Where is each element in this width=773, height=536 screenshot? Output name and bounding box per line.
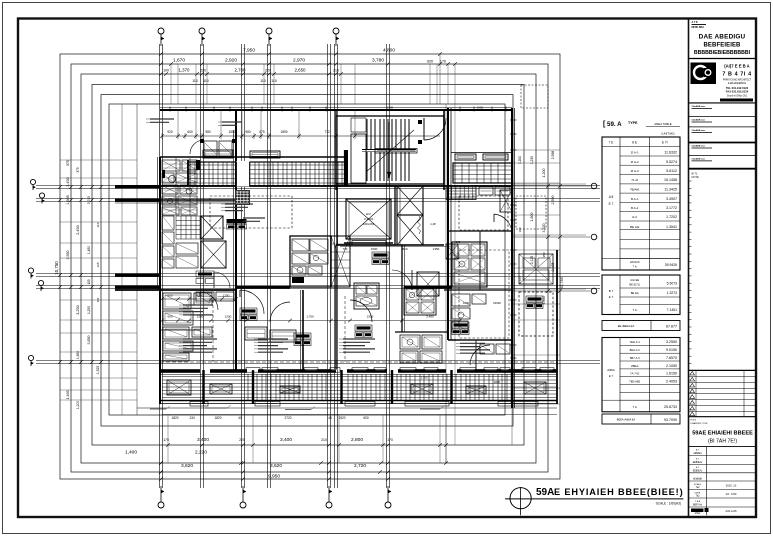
svg-text:100: 100 <box>96 297 100 302</box>
center fixtures <box>245 327 267 340</box>
svg-text:nEaEaBr: nEaEaBr <box>693 478 702 481</box>
center bathroom fixtures <box>292 239 309 251</box>
svg-text:MFPE BBA: MFPE BBA <box>692 26 705 29</box>
svg-text:1,450: 1,450 <box>87 246 91 255</box>
svg-text:2,450: 2,450 <box>76 225 80 235</box>
svg-text:110: 110 <box>192 79 198 83</box>
architect logo box <box>691 63 717 85</box>
svg-text:BE EA: BE EA <box>631 291 639 295</box>
svg-text:980: 980 <box>245 130 251 134</box>
door arc stair entry <box>424 118 446 140</box>
top-right balcony hatch band <box>453 163 512 183</box>
svg-text:772: 772 <box>324 130 330 134</box>
counter rects above bands <box>203 150 233 158</box>
stair small squares <box>418 120 422 124</box>
svg-text:600: 600 <box>187 130 193 134</box>
dashed expansion lines <box>160 361 557 363</box>
UL entry cabinets <box>204 141 217 156</box>
svg-text:1,465: 1,465 <box>66 391 70 400</box>
svg-text:10,750: 10,750 <box>54 261 59 275</box>
svg-text:980: 980 <box>205 130 211 134</box>
svg-text:1,200: 1,200 <box>542 169 546 178</box>
svg-text:5,745: 5,745 <box>87 196 91 204</box>
svg-text:ZI A-2: ZI A-2 <box>631 160 639 164</box>
svg-text:350: 350 <box>542 252 546 257</box>
top wall vertical stubs <box>177 110 179 136</box>
svg-text:5.5073: 5.5073 <box>667 282 677 286</box>
svg-text:A 7 B: A 7 B <box>692 21 698 24</box>
svg-text:1,800: 1,800 <box>530 213 534 222</box>
svg-text:1,250: 1,250 <box>87 306 91 314</box>
svg-text:A31 A-06: A31 A-06 <box>725 509 737 513</box>
svg-text:3.4907: 3.4907 <box>666 197 677 201</box>
center annot clusters <box>183 304 213 306</box>
svg-text:1500: 1500 <box>367 315 374 319</box>
elevator car <box>346 199 391 239</box>
svg-text:2,598: 2,598 <box>551 151 555 160</box>
wall stubs at grid x188 x345 <box>187 160 189 186</box>
svg-text:2720: 2720 <box>284 416 291 420</box>
right strip left wall <box>512 250 514 404</box>
svg-text:8 E: 8 E <box>632 141 637 145</box>
washbasin block <box>354 283 379 309</box>
RU fixtures <box>452 294 470 306</box>
svg-text:7.6570: 7.6570 <box>666 356 677 360</box>
svg-text:1.6150: 1.6150 <box>666 372 677 376</box>
svg-text:59A: 59A <box>536 487 554 498</box>
svg-text:11.6332: 11.6332 <box>664 150 677 154</box>
svg-text:170: 170 <box>163 438 169 442</box>
svg-text:1,670: 1,670 <box>173 58 185 64</box>
svg-text:3.2550: 3.2550 <box>666 340 677 344</box>
svg-text:170: 170 <box>387 438 393 442</box>
svg-text:1,200: 1,200 <box>518 156 522 164</box>
svg-text:210: 210 <box>321 438 327 442</box>
svg-text:8EA A 2: 8EA A 2 <box>630 348 641 352</box>
svg-text:1,230: 1,230 <box>530 156 534 164</box>
window boxes on band top wall <box>246 368 260 373</box>
svg-text:1,200: 1,200 <box>76 401 80 410</box>
svg-text:?B/AIE: ?B/AIE <box>630 188 639 192</box>
svg-text:1,700: 1,700 <box>306 315 314 319</box>
plan left wall <box>159 157 161 404</box>
svg-text:EEBIEAL: EEBIEAL <box>693 469 703 472</box>
svg-text:TEL 031.912.0123: TEL 031.912.0123 <box>726 86 749 90</box>
RU small shaft <box>500 190 512 212</box>
area sum row <box>602 321 680 331</box>
svg-text:5B7 A 3: 5B7 A 3 <box>630 356 640 360</box>
LL kitchen top strip <box>196 292 214 301</box>
svg-text:FAX 031.912.0124: FAX 031.912.0124 <box>726 90 749 94</box>
svg-text:7EH A 1: 7EH A 1 <box>629 340 640 344</box>
svg-text:2.1050: 2.1050 <box>666 364 677 368</box>
svg-text:Seoul-si Office 201: Seoul-si Office 201 <box>727 94 748 97</box>
core-bottom xbox <box>417 272 439 296</box>
svg-text:105: 105 <box>87 279 91 285</box>
UL entry labels <box>196 271 214 277</box>
svg-text:E 2: E 2 <box>632 215 637 219</box>
svg-text:920: 920 <box>427 60 433 64</box>
left wall stubs outside <box>115 185 160 188</box>
title block bottom table <box>689 455 757 457</box>
svg-text:1,605: 1,605 <box>66 195 70 205</box>
svg-text:2,590: 2,590 <box>551 196 555 205</box>
center room annotations <box>225 203 253 205</box>
svg-text:4,800: 4,800 <box>383 48 395 54</box>
svg-text:110: 110 <box>271 79 277 83</box>
svg-text:1,700: 1,700 <box>421 376 428 380</box>
revision table <box>689 375 757 377</box>
svg-text:15.1458: 15.1458 <box>664 178 677 182</box>
svg-text:975: 975 <box>66 160 70 166</box>
full-width interior dim row y317 <box>162 320 460 322</box>
svg-text:8I 71: 8I 71 <box>692 172 698 176</box>
svg-text:16900: 16900 <box>493 301 501 305</box>
svg-text:1820: 1820 <box>171 416 178 420</box>
svg-text:AILI EE: AILI EE <box>630 278 639 282</box>
svg-text:7 A: 7 A <box>633 264 637 268</box>
svg-text:DATE: DATE <box>695 491 701 494</box>
svg-text:3,520: 3,520 <box>542 224 546 233</box>
right unit bathroom <box>452 242 487 287</box>
RU door arc <box>494 214 512 235</box>
svg-text:B 7: B 7 <box>609 289 614 293</box>
svg-text:3,550: 3,550 <box>66 251 70 260</box>
svg-text:1200x2300: 1200x2300 <box>363 224 375 226</box>
svg-text:600: 600 <box>167 294 172 298</box>
svg-text:3,400: 3,400 <box>197 437 209 443</box>
dimension frame rectangles <box>60 54 560 479</box>
center labelbox <box>240 308 257 314</box>
hall door arcs <box>392 270 412 290</box>
svg-text:SCALE : 1/60(A3): SCALE : 1/60(A3) <box>656 502 681 506</box>
svg-text:EE+BEEA EA: EE+BEEA EA <box>618 324 635 328</box>
svg-text:2,920: 2,920 <box>225 58 237 64</box>
interior horiz walls <box>160 156 345 158</box>
svg-text:2,220: 2,220 <box>195 450 207 456</box>
LL kitchen fixtures <box>163 293 191 309</box>
RU dashed room <box>459 196 508 230</box>
svg-text:40: 40 <box>238 416 242 420</box>
center dividing wall x303 <box>302 290 304 370</box>
svg-text:CAaAEB ana: CAaAEB ana <box>692 158 706 161</box>
svg-text:134: 134 <box>189 416 195 420</box>
svg-text:3,620: 3,620 <box>181 463 193 469</box>
svg-text:920: 920 <box>167 130 173 134</box>
svg-text:BBBBBIEBIEBBBBBBI: BBBBBIEBIEBBBBBBI <box>694 50 751 56</box>
supply area row <box>602 414 680 424</box>
svg-text:EEBIEAL: EEBIEAL <box>693 461 703 464</box>
svg-text:2BEA: 2BEA <box>631 364 638 368</box>
UL black label boxes <box>227 219 247 224</box>
dimension tick slashes <box>159 52 163 56</box>
svg-text:1,850: 1,850 <box>76 351 80 360</box>
bottom grid markers <box>160 486 162 502</box>
center bathroom block walls <box>290 236 331 287</box>
svg-text:E B B: E B B <box>691 420 697 422</box>
svg-text:B A-2: B A-2 <box>631 206 639 210</box>
top grid markers <box>158 28 164 34</box>
core-bottom bathroom fixtures <box>400 335 420 349</box>
svg-text:25.6733: 25.6733 <box>664 405 677 409</box>
vertical grid lines <box>159 44 161 488</box>
svg-text:1800: 1800 <box>494 380 501 384</box>
stair right wall <box>443 110 445 190</box>
svg-text:3,780: 3,780 <box>372 58 384 64</box>
balcony dividers <box>202 370 204 404</box>
svg-text:7 E: 7 E <box>609 141 614 145</box>
svg-text:375: 375 <box>76 167 80 173</box>
RU hatch below band <box>446 187 476 189</box>
left grid markers <box>30 179 35 184</box>
svg-text:10,760: 10,760 <box>560 277 564 289</box>
svg-text:5.5274: 5.5274 <box>666 160 677 164</box>
stair landing <box>351 134 366 183</box>
drawing title symbol <box>510 488 531 509</box>
svg-text:5.6112: 5.6112 <box>666 169 677 173</box>
svg-text:7 A: 7 A <box>633 308 637 312</box>
stair lower flight hatch <box>366 152 368 181</box>
svg-text:1,525: 1,525 <box>96 366 100 375</box>
UL stair grid <box>176 215 200 217</box>
center dashed room with text <box>210 196 292 228</box>
svg-text:BIEFI Ah: BIEFI Ah <box>693 503 703 506</box>
corridor wall x402 <box>401 245 403 332</box>
svg-text:3,620: 3,620 <box>270 463 282 469</box>
LL door arc <box>200 292 218 310</box>
svg-text:DAE ABEDIGU: DAE ABEDIGU <box>699 34 746 41</box>
RU bottom fixtures <box>480 344 494 354</box>
svg-text:AREA TABLE: AREA TABLE <box>654 122 671 126</box>
svg-text:2,125: 2,125 <box>530 256 534 265</box>
svg-text:CAaAEB ana: CAaAEB ana <box>692 119 706 122</box>
svg-text:1520: 1520 <box>338 416 345 420</box>
area table 1 <box>602 137 680 270</box>
svg-text:CAaAEB ana: CAaAEB ana <box>692 145 706 148</box>
area table 2 <box>602 275 680 315</box>
svg-text:BE LIE: BE LIE <box>630 225 639 229</box>
svg-text:1200: 1200 <box>225 315 232 319</box>
RU labelboxes <box>452 322 469 328</box>
svg-text:1.3273: 1.3273 <box>667 291 677 295</box>
right dim extension horizontals <box>513 149 560 151</box>
svg-text:110: 110 <box>203 79 209 83</box>
svg-text:E 7: E 7 <box>609 295 614 299</box>
svg-text:NOTE: NOTE <box>692 175 699 179</box>
UL bathroom fixtures <box>162 160 180 171</box>
svg-text:7 A: 7 A <box>633 405 637 409</box>
interior dim row top <box>162 135 440 137</box>
top band door gap <box>237 161 250 187</box>
svg-text:7 B A: 7 B A <box>695 500 701 503</box>
center shaft hatch <box>331 236 350 287</box>
svg-text:900: 900 <box>456 240 461 244</box>
svg-text:220: 220 <box>265 69 271 73</box>
LL dim row <box>162 298 236 300</box>
balcony top wall segmented <box>160 369 200 373</box>
squiggle break line <box>418 216 421 234</box>
title block left edge <box>688 19 690 518</box>
svg-text:(UNIT:M2): (UNIT:M2) <box>661 132 674 136</box>
svg-text:(AI)7 E E B A: (AI)7 E E B A <box>724 64 749 69</box>
svg-text:9.0150: 9.0150 <box>666 348 677 352</box>
svg-text:100: 100 <box>163 69 169 73</box>
below-band leader notes <box>150 408 166 410</box>
svg-text:7,950: 7,950 <box>243 48 255 54</box>
svg-text:71 AI: 71 AI <box>631 178 638 182</box>
svg-text:CAaAEB ana: CAaAEB ana <box>692 129 706 132</box>
svg-text:1590: 1590 <box>228 130 235 134</box>
svg-text:DRAWING TITLE: DRAWING TITLE <box>691 422 709 425</box>
right unit right wall <box>511 108 513 408</box>
svg-text:A 8: A 8 <box>609 195 614 199</box>
left dim extension horizontals <box>60 159 137 161</box>
window ticks right wall <box>510 119 517 121</box>
plan-left extension line <box>136 104 138 415</box>
center-right fixtures block <box>404 287 436 315</box>
svg-text:AEBIEA: AEBIEA <box>693 452 702 455</box>
stair direction arrow <box>388 122 390 178</box>
center door arcs <box>240 290 264 314</box>
svg-text:ZI A-3: ZI A-3 <box>631 169 639 173</box>
balcony right wall <box>556 250 558 404</box>
balcony fixture boxes <box>167 380 191 395</box>
svg-text:2,970: 2,970 <box>293 58 305 64</box>
svg-text:1,370: 1,370 <box>179 68 191 73</box>
svg-text:1350: 1350 <box>433 247 440 251</box>
extension verticals x446 x512 <box>445 104 447 463</box>
svg-text:2,700: 2,700 <box>235 68 247 73</box>
svg-text:1700: 1700 <box>387 106 394 110</box>
svg-text:ZI A-1: ZI A-1 <box>631 150 639 154</box>
svg-text:600: 600 <box>363 416 369 420</box>
svg-text:3,850: 3,850 <box>87 336 91 345</box>
svg-text:59. A: 59. A <box>607 121 622 128</box>
window boxes below band <box>255 402 280 407</box>
svg-text:1890: 1890 <box>280 130 287 134</box>
UL hall door arc <box>214 272 230 288</box>
svg-text:2015. 10: 2015. 10 <box>726 484 737 488</box>
upper-left outside annotations <box>150 118 174 120</box>
svg-text:1200: 1200 <box>223 294 230 298</box>
UL shaft boxes <box>201 216 223 239</box>
svg-text:2,650: 2,650 <box>295 68 307 73</box>
svg-text:TYPE: TYPE <box>628 121 638 125</box>
svg-text:110: 110 <box>96 222 100 227</box>
svg-text:BEBFEIEIEB: BEBFEIEIEB <box>703 43 741 49</box>
svg-text:3.1772: 3.1772 <box>666 206 677 210</box>
svg-text:1.7202: 1.7202 <box>666 215 677 219</box>
horizontal grid lines <box>36 185 600 187</box>
svg-text:2,800: 2,800 <box>351 437 363 443</box>
svg-text:810: 810 <box>402 247 407 251</box>
svg-text:E EHYIAIEH BBEE(BIEE!): E EHYIAIEH BBEE(BIEE!) <box>554 487 683 497</box>
svg-text:2,720: 2,720 <box>354 463 366 469</box>
svg-text:1.3541: 1.3541 <box>666 225 677 229</box>
svg-text:2,400: 2,400 <box>426 315 434 319</box>
svg-text:2.4053: 2.4053 <box>666 379 677 383</box>
right unit left wall <box>447 108 449 340</box>
svg-text:2,123: 2,123 <box>518 276 522 284</box>
svg-text:& ENGINEERING: & ENGINEERING <box>728 83 746 85</box>
svg-text:AIBIA: AIBIA <box>607 368 614 372</box>
svg-text:93.7090: 93.7090 <box>664 418 677 422</box>
svg-text:1200: 1200 <box>197 294 204 298</box>
stair room walls <box>336 116 444 184</box>
svg-text:E 7: E 7 <box>609 374 614 378</box>
svg-text:(BI 7AH 7E!): (BI 7AH 7E!) <box>708 439 737 445</box>
svg-text:E 7: E 7 <box>609 202 614 206</box>
svg-text:PARKYOUNG ARCHITECT: PARKYOUNG ARCHITECT <box>723 79 752 82</box>
UL dark texture block <box>235 190 250 205</box>
balcony bottom wall <box>160 400 557 402</box>
svg-text:1600: 1600 <box>477 106 484 110</box>
svg-text:7IEH BE: 7IEH BE <box>629 379 640 383</box>
svg-text:A3 : 1/60: A3 : 1/60 <box>726 492 737 496</box>
svg-text:39.9426: 39.9426 <box>665 263 677 267</box>
svg-text:675: 675 <box>259 130 265 134</box>
svg-text:3,450: 3,450 <box>66 177 70 187</box>
svg-text:BEEA+AIBIA EA: BEEA+AIBIA EA <box>617 419 636 422</box>
right strip boxes <box>519 254 553 284</box>
svg-text:7.1451: 7.1451 <box>667 308 677 312</box>
svg-text:67.677: 67.677 <box>666 325 677 329</box>
svg-text:125: 125 <box>96 262 100 267</box>
svg-text:170: 170 <box>440 60 446 64</box>
svg-text:BE E(71): BE E(71) <box>629 283 640 287</box>
svg-text:1820: 1820 <box>214 416 221 420</box>
center-left long wall <box>235 110 237 370</box>
bottom dim extension verticals <box>167 415 169 463</box>
svg-text:220: 220 <box>200 69 206 73</box>
wall y287 segment center <box>236 286 290 289</box>
UL left cells <box>162 216 174 230</box>
svg-text:100: 100 <box>518 227 522 232</box>
svg-text:600: 600 <box>167 315 172 319</box>
window ticks top wall <box>169 107 171 112</box>
svg-text:1200: 1200 <box>463 301 470 305</box>
svg-text:7 B 4 7I 4: 7 B 4 7I 4 <box>722 72 751 78</box>
svg-text:E 7I: E 7I <box>662 141 668 145</box>
svg-text:7A 7I E: 7A 7I E <box>630 372 639 376</box>
svg-text:1,28: 1,28 <box>430 222 436 226</box>
svg-text:2Ha3: 2Ha3 <box>695 513 701 515</box>
RU annot cluster <box>460 339 490 341</box>
RU counter row below band <box>479 187 493 195</box>
svg-text:3,400: 3,400 <box>280 437 292 443</box>
corridor wall x336 <box>335 110 337 190</box>
svg-text:9,950: 9,950 <box>268 474 280 480</box>
stair upper flight hatch <box>366 119 368 149</box>
right grid markers <box>513 185 590 187</box>
svg-text:1,400: 1,400 <box>125 450 137 456</box>
svg-text:E/V: E/V <box>366 212 371 216</box>
svg-text:110: 110 <box>260 79 266 83</box>
svg-text:11.3425: 11.3425 <box>664 188 677 192</box>
svg-text:3,250: 3,250 <box>76 305 80 315</box>
svg-text:1500: 1500 <box>371 247 378 251</box>
svg-text:SCALE: SCALE <box>694 483 702 486</box>
area table 3 <box>602 338 680 412</box>
RU door arc lower <box>470 345 490 365</box>
top dim extension verticals <box>170 64 172 104</box>
svg-text:45: 45 <box>328 416 332 420</box>
svg-text:B A-1: B A-1 <box>631 197 639 201</box>
svg-text:CAaAEB ana: CAaAEB ana <box>692 105 706 108</box>
bottom balcony hatch band <box>162 376 556 378</box>
elevator shaft boxes <box>397 186 423 215</box>
right dashed annex <box>521 85 548 108</box>
